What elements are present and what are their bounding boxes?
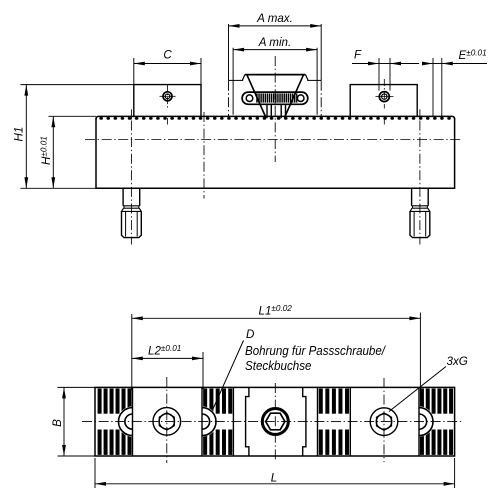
svg-text:L: L <box>271 472 277 485</box>
svg-text:A max.: A max. <box>256 12 293 25</box>
svg-text:3xG: 3xG <box>447 355 468 368</box>
svg-text:H1: H1 <box>12 127 25 142</box>
svg-text:A min.: A min. <box>258 36 291 49</box>
svg-text:C: C <box>163 49 172 62</box>
svg-text:F: F <box>354 49 362 62</box>
svg-text:Bohrung für Passschraube/: Bohrung für Passschraube/ <box>245 343 386 358</box>
svg-text:Steckbuchse: Steckbuchse <box>245 358 312 373</box>
svg-text:D: D <box>246 328 254 341</box>
svg-text:B: B <box>51 419 64 427</box>
